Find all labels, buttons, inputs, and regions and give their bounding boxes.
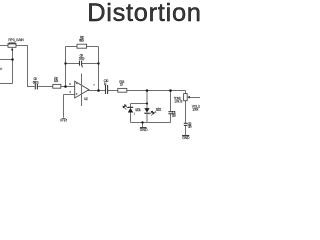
svg-text:GND: GND	[182, 136, 190, 140]
svg-text:680k: 680k	[79, 38, 84, 42]
svg-text:P: P	[0, 67, 2, 71]
svg-text:8: 8	[82, 65, 84, 69]
svg-text:7: 7	[93, 83, 95, 87]
svg-text:680n: 680n	[33, 80, 39, 84]
svg-text:U2: U2	[84, 97, 88, 101]
svg-text:LED1: LED1	[135, 108, 141, 112]
svg-text:LED2: LED2	[156, 108, 162, 112]
svg-text:GND: GND	[140, 128, 148, 132]
svg-text:10k B: 10k B	[174, 100, 183, 104]
svg-text:5: 5	[69, 90, 71, 94]
svg-text:6: 6	[69, 82, 71, 86]
svg-text:Distortion: Distortion	[87, 0, 200, 27]
svg-text:1u: 1u	[104, 82, 107, 86]
svg-text:22n: 22n	[172, 114, 176, 118]
svg-text:100p: 100p	[79, 57, 85, 61]
svg-text:10k: 10k	[54, 79, 59, 83]
svg-text:100k: 100k	[192, 107, 199, 111]
svg-text:Vref: Vref	[60, 119, 67, 123]
svg-text:22n: 22n	[188, 125, 192, 129]
svg-text:1k: 1k	[120, 82, 124, 86]
svg-text:100k: 100k	[8, 41, 16, 45]
